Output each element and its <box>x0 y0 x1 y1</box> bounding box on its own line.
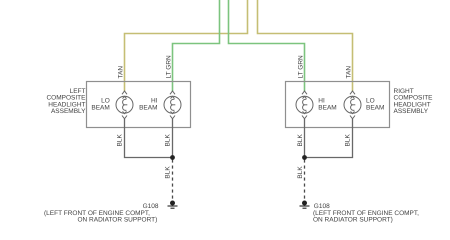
svg-text:ON RADIATOR SUPPORT): ON RADIATOR SUPPORT) <box>313 216 393 223</box>
svg-text:LO: LO <box>101 98 110 105</box>
svg-text:LO: LO <box>366 98 375 105</box>
svg-text:LT GRN: LT GRN <box>298 55 305 79</box>
svg-text:BEAM: BEAM <box>318 105 336 112</box>
svg-text:ASSEMBLY: ASSEMBLY <box>394 108 429 115</box>
svg-text:BEAM: BEAM <box>91 105 109 112</box>
svg-text:BEAM: BEAM <box>139 105 157 112</box>
svg-text:TAN: TAN <box>117 66 124 79</box>
svg-text:BLK: BLK <box>344 134 351 147</box>
svg-text:HI: HI <box>318 98 325 105</box>
svg-text:BLK: BLK <box>165 166 172 179</box>
svg-text:BLK: BLK <box>297 166 304 179</box>
svg-text:ASSEMBLY: ASSEMBLY <box>51 108 86 115</box>
svg-text:HI: HI <box>151 98 158 105</box>
svg-text:BLK: BLK <box>116 134 123 147</box>
svg-text:BLK: BLK <box>165 134 172 147</box>
svg-text:LT GRN: LT GRN <box>165 55 172 79</box>
svg-text:BLK: BLK <box>297 134 304 147</box>
svg-text:BEAM: BEAM <box>366 105 384 112</box>
svg-text:TAN: TAN <box>345 66 352 79</box>
svg-text:ON RADIATOR SUPPORT): ON RADIATOR SUPPORT) <box>78 216 158 223</box>
